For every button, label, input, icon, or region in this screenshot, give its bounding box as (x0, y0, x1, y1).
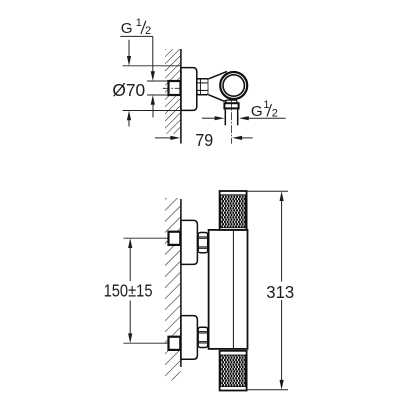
nipple G1/2 through wall (top drawing) (169, 81, 181, 95)
wall face line (top drawing) (180, 49, 182, 144)
wall face line (bottom drawing) (180, 199, 182, 367)
nipple bottom extension line (147, 94, 168, 96)
bottom contour to outlet (208, 95, 226, 101)
leader for G1/2 left: underline, vertical, arrow down (120, 36, 153, 72)
dim Ø70 extension bottom (123, 110, 181, 112)
lower union: nut (198, 327, 208, 347)
body feature line (232, 231, 234, 349)
upper union: nut (198, 233, 208, 253)
outlet trapezoid collar (225, 100, 237, 103)
arrow up to nipple bottom ext (151, 95, 155, 105)
svg-text:G: G (121, 20, 133, 37)
lower union: in-wall nipple (169, 337, 181, 350)
svg-text:150±15: 150±15 (104, 281, 153, 301)
outlet centerline (230, 100, 232, 144)
nipple centerline (163, 87, 181, 89)
dim Ø70 top arrow (128, 40, 130, 58)
lower union: escutcheon (181, 316, 197, 360)
dim 150±15 (128, 238, 132, 248)
lower union: pipe centerline (124, 342, 168, 344)
escutcheon (top drawing) (181, 68, 197, 111)
svg-text:1: 1 (263, 99, 269, 111)
knob inner circle (223, 75, 244, 96)
dim 79 (155, 137, 172, 139)
dim 313 line + arrows (280, 191, 284, 201)
knob outer circle (220, 72, 247, 99)
dim G1/2 right arrows (202, 117, 216, 119)
svg-text:79: 79 (195, 130, 213, 150)
svg-text:Ø70: Ø70 (112, 80, 145, 100)
cone adapter to knob (208, 71, 227, 101)
bottom handle (220, 351, 247, 391)
top handle (220, 191, 247, 230)
upper union: in-wall nipple (169, 232, 181, 245)
wall hatch (bottom drawing) (165, 198, 181, 381)
svg-text:2: 2 (145, 25, 151, 37)
outlet pipe walls (224, 108, 226, 125)
dim Ø70 extension top (123, 65, 181, 67)
label G1/2 (left) (121, 17, 151, 37)
nipple top extension line (147, 80, 168, 82)
dim 313 top ext (247, 190, 288, 192)
svg-text:313: 313 (266, 282, 294, 302)
arrowhead down to nipple top ext (151, 71, 155, 81)
union nut (top drawing) (197, 79, 209, 95)
dim Ø70 bottom arrow (127, 111, 131, 121)
outlet flange (224, 103, 238, 108)
upper union: escutcheon (181, 220, 197, 264)
svg-text:1: 1 (136, 17, 142, 29)
upper union: pipe centerline (124, 237, 168, 239)
wall hatch (top drawing) (165, 49, 181, 134)
label G1/2 (right) (251, 99, 278, 120)
body main rect (209, 230, 248, 349)
dim 313 bottom ext (247, 389, 288, 391)
svg-text:G: G (251, 103, 263, 120)
svg-text:2: 2 (272, 107, 278, 119)
